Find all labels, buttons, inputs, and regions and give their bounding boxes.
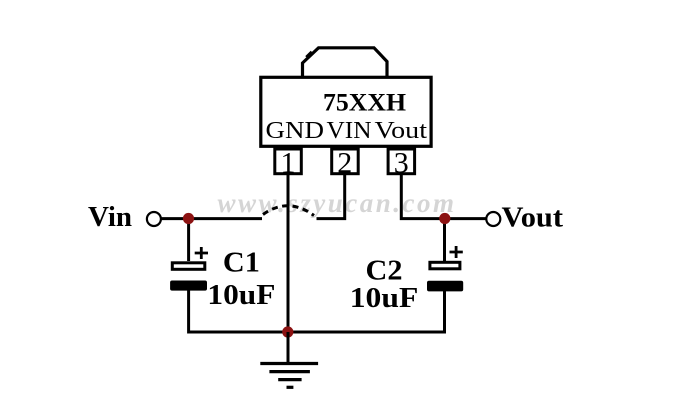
svg-text:10uF: 10uF — [207, 279, 275, 311]
node B junction dot — [439, 213, 450, 224]
IC U1 body — [261, 77, 431, 146]
IC U1 tab crease line — [306, 52, 312, 57]
IC U1 part number 75XXH — [323, 90, 407, 117]
wire pin 1 GND vertical — [287, 173, 290, 361]
wire crossover hop over GND wire — [263, 206, 314, 216]
pin 2 box — [332, 149, 359, 174]
wire pin 3 to Vout — [401, 173, 486, 219]
IC U1 pin name Vout — [375, 118, 428, 144]
label C1 — [223, 247, 260, 279]
svg-text:VIN: VIN — [327, 118, 372, 144]
svg-text:www.szyucan.com: www.szyucan.com — [217, 188, 456, 218]
svg-text:Vout: Vout — [502, 202, 564, 234]
capacitor C1 top plate — [172, 263, 205, 270]
node A junction dot — [183, 213, 194, 224]
pin 3 number — [394, 147, 409, 180]
Vin terminal circle — [147, 212, 161, 226]
capacitor C1 plus sign — [195, 247, 208, 259]
label C2 — [366, 255, 403, 287]
wire hop landing to pin 2 — [317, 173, 345, 219]
wire junction A to C1 — [187, 219, 190, 261]
svg-text:Vin: Vin — [88, 201, 132, 233]
label C2 value 10uF — [350, 282, 419, 314]
wire junction B to C2 — [443, 219, 446, 261]
IC U1 tab — [303, 48, 388, 76]
label Vout — [502, 202, 564, 234]
label Vin — [88, 201, 132, 233]
capacitor C2 top plate — [430, 262, 460, 269]
pin 2 number — [337, 147, 352, 180]
watermark www.szyucan.com — [217, 188, 456, 218]
svg-text:C1: C1 — [223, 247, 260, 279]
pin 1 number — [281, 147, 296, 180]
wire C2 to bottom rail — [288, 291, 445, 332]
capacitor C2 bottom plate — [427, 281, 463, 292]
pin 1 box — [275, 149, 302, 174]
capacitor C2 plus sign — [450, 246, 463, 258]
pin 3 box — [388, 149, 415, 174]
capacitor C1 bottom plate — [170, 281, 207, 291]
svg-text:75XXH: 75XXH — [323, 90, 407, 117]
label C1 value 10uF — [207, 279, 275, 311]
wire Vin terminal to junction A — [161, 217, 262, 220]
wire C1 to bottom rail — [189, 290, 288, 332]
IC U1 pin name VIN — [327, 118, 372, 144]
svg-text:Vout: Vout — [375, 118, 428, 144]
Vout terminal circle — [486, 212, 500, 226]
svg-text:GND: GND — [266, 118, 325, 144]
svg-text:10uF: 10uF — [350, 282, 419, 314]
IC U1 pin name GND — [266, 118, 325, 144]
ground symbol — [260, 332, 318, 387]
node C junction dot on bottom rail — [282, 326, 293, 337]
